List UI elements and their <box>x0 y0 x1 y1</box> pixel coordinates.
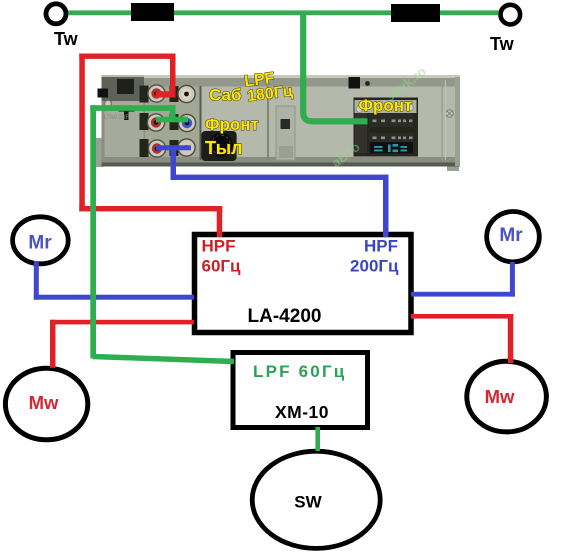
svg-text:HPF: HPF <box>364 237 398 256</box>
midwoofer Mw right <box>467 361 547 432</box>
middle seam dark <box>267 86 269 160</box>
connector mid divider <box>369 127 414 133</box>
dark top-left block <box>102 77 145 101</box>
wire blue: rear RCA drop <box>171 145 177 180</box>
wire blue: drop into LA-4200 top <box>383 175 389 237</box>
left screw <box>105 100 112 107</box>
RCA jack sub L (red) <box>148 85 165 102</box>
wire blue: Mr left horizontal <box>34 295 194 300</box>
vent mark <box>119 108 135 120</box>
bay top bar with screws <box>355 100 417 113</box>
wire red: down to Mw left <box>50 320 56 368</box>
wire green: front RCA link <box>156 117 188 123</box>
bottom right foot <box>447 167 459 172</box>
right panel seam 2 <box>445 80 446 160</box>
crossover capacitor right <box>391 4 440 22</box>
tweeter Tw right <box>501 5 521 25</box>
unit top lip <box>144 75 460 78</box>
antenna socket <box>201 131 236 161</box>
svg-text:Tw: Tw <box>54 29 79 49</box>
svg-text:200Гц: 200Гц <box>350 257 399 276</box>
RCA jack front L (red) <box>147 114 164 131</box>
RCA mounting bracket row2 right <box>170 114 179 130</box>
svg-text:60Гц: 60Гц <box>202 257 242 276</box>
svg-text:SW: SW <box>294 493 322 512</box>
black slot in top-left block <box>117 79 134 94</box>
wire green: horizontal into XM-10 <box>93 357 234 362</box>
wire blue: Mr left drop <box>34 261 39 300</box>
unit body <box>102 75 461 167</box>
wire red: RCA to top corner vertical <box>170 54 176 95</box>
wire red: drop into LA-4200 top <box>217 206 223 237</box>
unit bottom dark strip <box>102 157 461 167</box>
midwoofer Mw left <box>5 368 87 440</box>
svg-text:Mr: Mr <box>28 233 52 254</box>
svg-text:Тыл: Тыл <box>205 138 243 158</box>
RCA mounting bracket row3 right <box>170 140 179 156</box>
RCA jack sub R (white) <box>178 85 195 102</box>
unit lower-left lip <box>95 138 103 167</box>
bay inner shadow <box>355 113 367 153</box>
svg-text:Фронт: Фронт <box>205 115 259 134</box>
connector pins row2 <box>373 137 413 140</box>
RCA jack front R (blue) <box>178 114 195 131</box>
svg-text:LPF 60Гц: LPF 60Гц <box>253 362 346 381</box>
right edge band <box>455 77 460 166</box>
midrange Mr left <box>13 217 69 264</box>
RCA mounting bracket row2 left <box>140 113 149 130</box>
left black tab <box>98 89 109 98</box>
bay screw right <box>407 104 414 111</box>
head unit rear panel (photo) <box>95 64 460 171</box>
left lower panel <box>102 101 145 160</box>
wire red: sub RCA hook <box>156 91 176 97</box>
svg-text:LA-4200: LA-4200 <box>248 306 322 327</box>
svg-text:HPF: HPF <box>202 237 236 256</box>
amplifier box LA-4200 <box>195 235 412 333</box>
antenna socket hole <box>209 133 233 157</box>
wire red: LA-4200 right to Mw horizontal <box>411 314 513 319</box>
midrange Mr right <box>487 212 540 262</box>
svg-text:Mr: Mr <box>499 225 523 246</box>
svg-text:ХМ-10: ХМ-10 <box>275 402 329 422</box>
RCA jack rear R (white) <box>178 139 195 156</box>
small screw dot <box>365 81 370 86</box>
left panel seam <box>144 86 146 160</box>
subwoofer SW <box>252 451 380 548</box>
wire red: top horizontal <box>79 54 175 59</box>
svg-text:Tw: Tw <box>490 34 515 54</box>
wire blue: Mr right rise <box>510 262 515 297</box>
right top black tab <box>349 77 361 89</box>
wire green: top tweeter bus <box>68 10 498 15</box>
wire blue: rear RCA link <box>156 145 191 150</box>
svg-text:Mw: Mw <box>485 386 515 407</box>
wire red: down to Mw right <box>508 314 514 363</box>
RCA mounting bracket row3 left <box>140 139 149 157</box>
mechanism foot <box>279 146 293 158</box>
tweeter Tw left <box>46 4 66 24</box>
teal contacts <box>374 144 407 152</box>
unit top band <box>144 78 460 87</box>
right panel seam <box>442 80 443 160</box>
crossover capacitor left <box>131 3 174 21</box>
unit left edge <box>102 101 105 160</box>
mechanism rail <box>276 106 295 160</box>
svg-text:Mw: Mw <box>29 392 59 413</box>
wire blue: Mr right horizontal <box>411 292 515 297</box>
wire red: horizontal to HPF input <box>79 206 222 211</box>
wire green: XM-10 to SW <box>315 427 320 451</box>
RCA jack rear L (red) <box>148 140 165 157</box>
right end screw <box>446 110 454 118</box>
bay screw left <box>356 106 363 113</box>
wire green: drop to ISO connector <box>303 13 367 122</box>
wire red: left vertical down <box>79 54 85 212</box>
wire green: horizontal to left rail <box>90 105 175 111</box>
RCA mounting bracket row1 right <box>170 86 179 102</box>
label LPF 180Гц (tilted) <box>243 68 293 105</box>
svg-text:Саб: Саб <box>209 86 241 105</box>
recessed connector bay <box>354 98 419 157</box>
connector lower strip <box>370 142 413 153</box>
mechanism knob <box>281 119 291 129</box>
RCA panel backdrop <box>144 87 200 161</box>
wire green: left rail down <box>90 105 96 358</box>
amplifier box XM-10 <box>233 353 368 428</box>
wire green: front RCA riser <box>170 105 176 119</box>
RCA panel right seam <box>200 86 202 160</box>
ISO connector block <box>369 113 414 142</box>
unit bottom edge line <box>102 163 461 167</box>
wire blue: horizontal to HPF200 <box>171 175 389 180</box>
svg-text:17A0 23F: 17A0 23F <box>103 115 129 121</box>
svg-text:Фронт: Фронт <box>359 96 413 115</box>
connector pins row1 <box>373 120 413 123</box>
RCA mounting bracket row1 left <box>140 86 149 103</box>
wire red: LA-4200 left to Mw horizontal <box>50 320 194 325</box>
